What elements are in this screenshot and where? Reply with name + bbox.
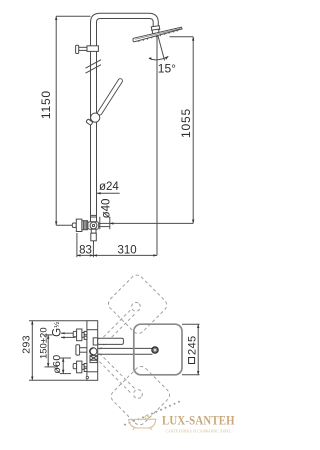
svg-text:83: 83 <box>79 244 92 256</box>
svg-text:15°: 15° <box>158 62 176 76</box>
svg-text:1150: 1150 <box>39 90 53 119</box>
svg-text:LUX-SANTEH: LUX-SANTEH <box>162 413 235 428</box>
svg-text:G: G <box>51 328 63 337</box>
svg-text:1055: 1055 <box>179 108 193 138</box>
svg-text:½: ½ <box>53 322 61 328</box>
svg-text:ø24: ø24 <box>99 181 119 193</box>
svg-text:ø40: ø40 <box>100 199 112 219</box>
svg-text:310: 310 <box>118 244 137 256</box>
svg-text:293: 293 <box>21 335 33 354</box>
svg-text:245: 245 <box>186 335 198 355</box>
svg-text:150±20: 150±20 <box>39 327 50 359</box>
svg-text:САНТЕХНИКА И САНФАЯНС ЛЮКС: САНТЕХНИКА И САНФАЯНС ЛЮКС <box>166 429 232 433</box>
svg-text:ø60: ø60 <box>51 354 63 373</box>
